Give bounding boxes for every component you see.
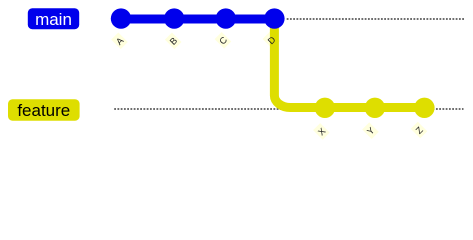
commit A (111, 8, 131, 28)
commit Z (414, 98, 434, 118)
commit X (315, 98, 335, 118)
dotted continuation line, main row (287, 18, 464, 20)
commit label background Y (362, 122, 379, 139)
feature branch wire from commit D down to feature row (274, 19, 424, 108)
commit D (264, 8, 284, 28)
commit label background B (165, 32, 182, 49)
commit C (216, 8, 236, 28)
svg-text:main: main (35, 10, 72, 29)
commit label background Z (411, 122, 428, 139)
commit label background X (313, 123, 330, 140)
commit label background D (263, 31, 281, 49)
commit label text A (114, 35, 126, 47)
commit label text B (168, 35, 179, 46)
commit Y (365, 98, 385, 118)
commit label text Z (414, 125, 425, 136)
main branch wire A to D (121, 15, 274, 24)
dotted continuation line, feature row (114, 108, 463, 110)
commit label background A (111, 32, 128, 49)
commit label text D (266, 34, 278, 46)
commit label text X (316, 126, 327, 137)
branch label badge: main (28, 8, 79, 29)
branch label badge: feature (8, 99, 80, 120)
commit B (164, 8, 184, 28)
svg-text:feature: feature (17, 101, 70, 120)
commit label text Y (365, 125, 376, 136)
commit label text C (217, 35, 229, 47)
commit label background C (215, 32, 232, 49)
